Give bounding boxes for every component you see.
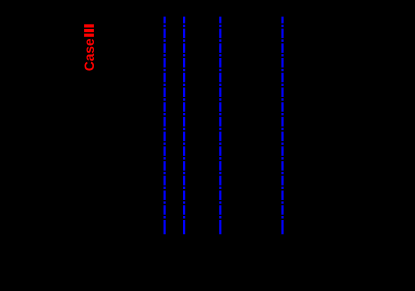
vline 4 (blue dash-dot) (281, 17, 283, 235)
annotation "III" bar 2 (red) (84, 29, 94, 32)
annotation "III" bar 1 (red) (84, 24, 94, 27)
annotation "III" bar 3 (red) (84, 34, 94, 37)
vline 3 (blue dash-dot) (219, 17, 221, 235)
svg-text:Case: Case (82, 38, 97, 71)
vline 1 (blue dash-dot) (164, 17, 166, 235)
vline 2 (blue dash-dot) (183, 17, 185, 235)
